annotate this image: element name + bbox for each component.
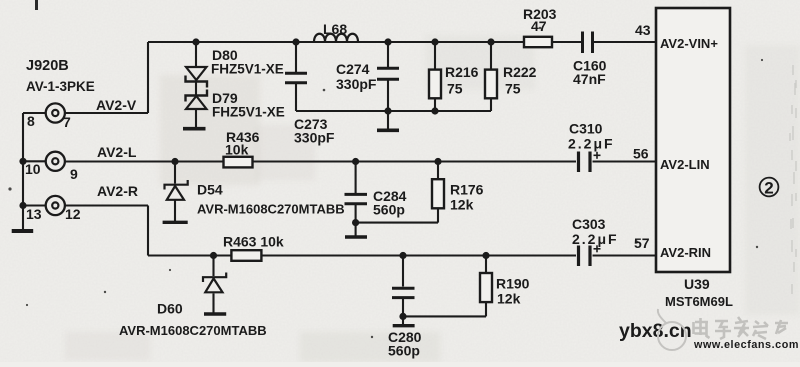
wire D60 top lead — [212, 256, 214, 277]
svg-text:AV2-V: AV2-V — [96, 97, 137, 113]
junction node AV2-R R190 — [482, 252, 489, 259]
svg-text:C310: C310 — [569, 121, 603, 137]
svg-text:C274: C274 — [336, 61, 370, 77]
wire R436 to C310 — [252, 160, 576, 162]
ground bar below D79 — [183, 127, 206, 131]
svg-text:57: 57 — [634, 235, 650, 251]
capacitor C284 560p — [345, 194, 368, 203]
svg-text:R190: R190 — [496, 276, 530, 292]
capacitor C273 330pF — [285, 73, 307, 83]
svg-text:D60: D60 — [157, 301, 183, 317]
svg-text:MST6M69L: MST6M69L — [665, 294, 733, 309]
svg-text:75: 75 — [505, 81, 521, 97]
svg-text:AV2-RIN: AV2-RIN — [660, 245, 711, 260]
plus sign of C310 — [594, 152, 601, 159]
junction node top rail R222 — [487, 38, 494, 45]
svg-text:AVR-M1608C270MTABB: AVR-M1608C270MTABB — [119, 323, 267, 338]
capacitor C280 560p — [392, 288, 415, 297]
wire stub jack7 to corner — [65, 112, 148, 114]
resistor R176 12k — [432, 179, 444, 208]
wire R190 bottom lead — [485, 302, 487, 316]
svg-text:FHZ5V1-XE: FHZ5V1-XE — [211, 62, 284, 77]
svg-text:9: 9 — [70, 166, 78, 182]
wire C280 top lead — [402, 256, 404, 287]
wire C274 bottom lead — [387, 81, 389, 112]
junction node AV2-L R176 — [434, 158, 441, 165]
svg-text:J920B: J920B — [26, 58, 69, 74]
capacitor C160 47nF — [583, 32, 593, 54]
wire C284 top lead — [355, 162, 357, 194]
svg-text:330pF: 330pF — [336, 76, 377, 92]
wire C160 to pin 43 — [594, 41, 656, 43]
glyph shao — [753, 321, 768, 339]
junction node bus pin10 — [19, 158, 26, 165]
svg-text:AV2-R: AV2-R — [97, 183, 138, 199]
wire vertical AV2-V riser — [147, 42, 149, 113]
svg-text:FHZ5V1-XE: FHZ5V1-XE — [212, 105, 285, 120]
wire stub bus to jack AV2-L — [23, 160, 46, 162]
svg-text:330pF: 330pF — [294, 130, 335, 146]
wire C303 to pin 57 — [593, 254, 657, 256]
wire R222 top lead — [490, 42, 492, 70]
svg-text:R463 10k: R463 10k — [223, 234, 284, 250]
svg-text:56: 56 — [633, 146, 649, 162]
glyph zi — [715, 321, 731, 339]
circled number 2 — [760, 178, 779, 198]
wire bottom rail to R463 — [148, 254, 231, 256]
junction node lower rail R216 — [431, 107, 438, 114]
connector jack AV2-R (pins 13,12) — [46, 196, 65, 215]
svg-text:AV2-VIN+: AV2-VIN+ — [660, 36, 718, 51]
wire C280 bottom lead — [402, 299, 404, 316]
wire C284 ground stub — [355, 223, 357, 236]
svg-text:AV2-L: AV2-L — [97, 144, 137, 160]
wire D80-D79 link — [195, 83, 197, 96]
ground bar below C284 — [345, 235, 367, 238]
svg-text:13: 13 — [26, 206, 42, 222]
svg-text:2.2μF: 2.2μF — [572, 231, 619, 247]
diode D54 zener AVR-M1608C270MTABB — [165, 180, 188, 200]
ground bar below D54 — [163, 221, 188, 224]
svg-text:C303: C303 — [572, 216, 606, 232]
wire C280 to R190 bottom link — [403, 315, 486, 317]
svg-text:12k: 12k — [497, 291, 521, 307]
resistor R216 75 — [429, 70, 441, 99]
wire R176 bottom lead — [437, 208, 439, 222]
wire AV2-R jack to corner — [65, 204, 148, 206]
capacitor C274 330pF — [377, 68, 399, 79]
wire C273 bottom lead — [295, 84, 297, 111]
svg-text:L68: L68 — [323, 21, 347, 37]
wire top rail AV2-V to R203 — [148, 41, 524, 43]
svg-text:7: 7 — [63, 114, 71, 130]
wire C284 bottom lead — [355, 205, 357, 223]
svg-text:12: 12 — [65, 206, 81, 222]
wire R216 top lead — [434, 42, 436, 70]
svg-text:2.2μF: 2.2μF — [568, 136, 615, 152]
junction node lower rail C274 — [384, 107, 391, 114]
svg-text:43: 43 — [635, 22, 651, 38]
svg-text:47nF: 47nF — [573, 71, 606, 87]
wire vertical AV2-R drop — [147, 206, 149, 256]
wire left ground bus — [22, 113, 24, 230]
connector jack AV2-L (pins 10,9) — [46, 152, 65, 171]
glyph fa — [734, 317, 749, 337]
resistor R463 10k — [231, 250, 261, 261]
svg-text:560p: 560p — [373, 202, 405, 218]
svg-text:75: 75 — [447, 81, 463, 97]
wire D60 bottom lead — [212, 294, 214, 313]
wire C273 top lead — [295, 42, 297, 72]
capacitor C310 2.2uF electrolytic — [579, 152, 591, 173]
inductor L68 — [314, 34, 358, 42]
svg-text:2: 2 — [764, 179, 773, 198]
capacitor C303 2.2uF electrolytic — [579, 246, 591, 267]
wire R190 top lead — [485, 256, 487, 274]
svg-text:R176: R176 — [450, 182, 484, 198]
svg-text:10k: 10k — [225, 142, 249, 158]
junction node AV2-L C284 — [352, 158, 359, 165]
plus sign of C303 — [594, 245, 601, 252]
junction node top rail C273 — [292, 38, 299, 45]
diode D79 zener FHZ5V1-XE — [186, 90, 208, 110]
svg-text:U39: U39 — [684, 276, 710, 292]
connector jack AV2-V (pins 8,7) — [46, 103, 65, 122]
svg-text:R222: R222 — [503, 64, 537, 80]
diode D60 zener AVR-M1608C270MTABB — [203, 273, 226, 293]
svg-text:AV-1-3PKE: AV-1-3PKE — [26, 79, 95, 94]
svg-text:D54: D54 — [197, 182, 223, 198]
ground bar filter rail — [377, 129, 399, 133]
junction node top rail R216 — [431, 38, 438, 45]
glyph dian — [694, 318, 710, 338]
wire stub bus to jack AV2-V — [23, 112, 46, 114]
watermark elecfans chinese characters — [694, 317, 789, 339]
watermark elecfans balloon logo — [658, 309, 686, 350]
svg-text:R216: R216 — [445, 64, 479, 80]
ground bar below C280 — [393, 324, 415, 327]
svg-text:www.elecfans.com: www.elecfans.com — [693, 339, 799, 351]
junction node AV2-R C280 — [399, 252, 406, 259]
junction node bus pin13 — [19, 202, 26, 209]
junction node top rail C274 — [384, 38, 391, 45]
wire R216 bottom lead — [434, 98, 436, 111]
svg-text:12k: 12k — [450, 197, 474, 213]
wire R463 to C303 — [261, 254, 576, 256]
wire D54 bottom lead — [174, 200, 176, 221]
wire filter lower rail — [296, 110, 491, 112]
resistor R190 12k — [480, 273, 492, 302]
faint right-edge scan marks — [790, 65, 796, 294]
wire C274 top lead — [387, 42, 389, 67]
junction node AV2-R D60 — [210, 252, 217, 259]
wire R203 to C160 — [552, 41, 581, 43]
resistor R436 10k — [224, 157, 253, 168]
wire D79 bottom lead — [195, 109, 197, 128]
wire R176 top lead — [437, 162, 439, 180]
svg-text:10: 10 — [25, 161, 41, 177]
wire C310 to pin 56 — [593, 160, 657, 162]
resistor R222 75 — [485, 70, 497, 99]
wire R222 bottom lead — [490, 98, 492, 111]
wire AV2-L jack to R436 — [65, 160, 224, 162]
wire ground stub of filter rail — [387, 111, 389, 129]
scan tick top-left — [35, 0, 38, 10]
resistor R203 47 — [524, 37, 552, 47]
svg-text:ybx8.cn: ybx8.cn — [619, 320, 692, 342]
ground bar below D60 — [204, 312, 226, 315]
wire D54 top lead — [174, 162, 176, 184]
svg-text:AV2-LIN: AV2-LIN — [660, 157, 710, 172]
IC U39 MST6M69L box — [656, 8, 730, 272]
junction node top rail D80 — [192, 38, 199, 45]
svg-text:560p: 560p — [388, 343, 420, 359]
junction node C284/R176 bottom — [352, 219, 359, 226]
diode D80 zener FHZ5V1-XE — [186, 67, 208, 88]
wire C284 to R176 bottom link — [356, 222, 438, 224]
svg-text:AVR-M1608C270MTABB: AVR-M1608C270MTABB — [197, 202, 345, 217]
junction node C280/R190 bottom — [399, 313, 406, 320]
glyph you — [775, 320, 788, 334]
svg-text:47: 47 — [531, 18, 547, 34]
junction node AV2-L D54 — [171, 158, 178, 165]
wire C280 ground stub — [402, 316, 404, 324]
wire stub bus to jack AV2-R — [23, 204, 46, 206]
wire D80 top lead — [195, 42, 197, 67]
svg-text:8: 8 — [27, 113, 35, 129]
ground bar left bus — [12, 229, 34, 233]
